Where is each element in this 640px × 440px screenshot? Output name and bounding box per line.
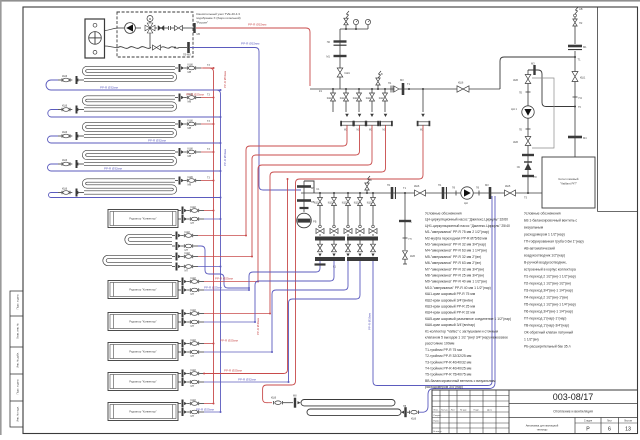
valve KSh6 floor serp <box>271 397 293 405</box>
svg-text:КШ6-кран шаровый 3/4"(вн/нар): КШ6-кран шаровый 3/4"(вн/нар) <box>425 323 475 327</box>
radiator coil S3 <box>84 124 175 136</box>
svg-text:PP-R Ø25мм: PP-R Ø25мм <box>196 408 214 412</box>
wire blue trunk riser <box>205 90 221 412</box>
collector1 branch valves <box>327 88 424 112</box>
radiator coil S4 <box>84 152 175 164</box>
svg-text:М8: М8 <box>188 100 192 104</box>
svg-text:М9: М9 <box>311 186 315 190</box>
wire blue return C4 <box>204 351 273 353</box>
valve KSh5 upper <box>513 75 531 84</box>
svg-text:Инв. № дубл.: Инв. № дубл. <box>17 352 20 368</box>
svg-text:М4: М4 <box>583 136 587 140</box>
svg-text:М7: М7 <box>191 414 195 418</box>
svg-text:П1: П1 <box>387 183 391 187</box>
svg-text:М1-"американка" PP-R 75 мм 2 1: М1-"американка" PP-R 75 мм 2 1/2"(нар) <box>425 230 489 234</box>
svg-text:КШ6: КШ6 <box>62 75 68 78</box>
tee T1 row1 <box>407 82 411 90</box>
gauges and safety valve assembly <box>340 11 371 89</box>
svg-text:М1: М1 <box>583 45 587 49</box>
wire red supply S5 <box>201 177 215 182</box>
svg-text:П2: П2 <box>327 40 331 44</box>
manifold line row2 <box>301 192 542 194</box>
svg-text:Подп.: Подп. <box>474 410 480 412</box>
svg-text:КШ2: КШ2 <box>191 338 197 342</box>
svg-text:П7-переход 1"(нар)-1"(нар): П7-переход 1"(нар)-1"(нар) <box>524 317 566 321</box>
svg-text:П1: П1 <box>438 183 442 187</box>
wire red supply S4 <box>201 148 215 153</box>
flange floor serp right <box>401 405 407 417</box>
valve KSh6 row1 <box>457 81 469 93</box>
svg-text:М3-"американка" PP-R 32 мм 3/4: М3-"американка" PP-R 32 мм 3/4"(нар) <box>425 243 486 247</box>
svg-text:М7: М7 <box>191 292 195 296</box>
reducer P5 lower <box>519 129 531 132</box>
svg-text:КШ2: КШ2 <box>327 97 333 100</box>
wire blue return C3 <box>204 321 256 323</box>
svg-text:П6-переход 3/4"(вн)-1 1/4"(нар: П6-переход 3/4"(вн)-1 1/4"(нар) <box>524 310 573 314</box>
svg-text:Автономка для жилищной: Автономка для жилищной <box>526 424 559 428</box>
branch C6 return fittings <box>178 408 204 418</box>
flange M3 row1 <box>400 78 404 95</box>
wire red supply C2 <box>204 281 259 283</box>
svg-text:КШ6: КШ6 <box>62 188 68 191</box>
svg-text:Т4-тройник PP-R 40/40/25 мм: Т4-тройник PP-R 40/40/25 мм <box>425 367 472 371</box>
svg-text:П3-переход 3/4"(вн)-1 1/4"(нар: П3-переход 3/4"(вн)-1 1/4"(нар) <box>524 289 573 293</box>
svg-text:М3: М3 <box>531 62 535 66</box>
wire panel to mixing unit <box>105 28 119 48</box>
svg-text:М7-"американка" PP-R 32 мм 3/4: М7-"американка" PP-R 32 мм 3/4"(вн) <box>425 267 484 271</box>
tee T1 row2 <box>403 186 407 190</box>
branch C6 supply fittings <box>178 398 204 408</box>
svg-text:PP-R Ø32мм: PP-R Ø32мм <box>148 139 166 143</box>
flange M1 riser <box>568 45 587 50</box>
row2 left flange stack <box>297 181 320 205</box>
wire blue return main <box>190 42 301 191</box>
branch C4 return fittings <box>178 348 204 358</box>
svg-text:Подп. и дата: Подп. и дата <box>17 379 20 394</box>
svg-text:КШ6: КШ6 <box>411 418 417 421</box>
radiator coil S5 <box>84 181 175 193</box>
radiator C5 <box>108 373 178 391</box>
valve floor serp right <box>407 410 419 420</box>
svg-text:М8: М8 <box>188 126 192 130</box>
flange P8 <box>522 175 537 179</box>
svg-text:М8-"американка" PP-R 25 мм 3/4: М8-"американка" PP-R 25 мм 3/4"(вн) <box>425 274 484 278</box>
branch S3 supply fittings <box>175 118 201 130</box>
svg-text:"Россия": "Россия" <box>196 20 208 24</box>
svg-text:Подп. и дата: Подп. и дата <box>17 294 20 309</box>
svg-text:PP-R Ø25мм: PP-R Ø25мм <box>220 339 238 343</box>
svg-text:М10-"американка" PP-R 40 мм 1: М10-"американка" PP-R 40 мм 1 1/2"(нар) <box>425 286 491 290</box>
manifold line row1 <box>310 88 500 90</box>
branch S1 return fittings <box>58 75 84 84</box>
branch C1 return fittings <box>178 215 204 225</box>
radiator C3 <box>108 313 178 331</box>
mixing unit dashed enclosure <box>117 12 193 57</box>
svg-text:М5-"американка" PP-R 32 мм 2"(: М5-"американка" PP-R 32 мм 2"(вн) <box>425 255 481 259</box>
svg-text:Взам. инв. №: Взам. инв. № <box>17 323 20 339</box>
wire blue return S4 <box>48 164 222 172</box>
flange P2 row1 riser <box>327 40 347 46</box>
flange M1 row1 riser <box>326 55 346 59</box>
svg-text:PP-R Ø32мм: PP-R Ø32мм <box>368 313 372 330</box>
expansion tank RB <box>297 205 317 228</box>
svg-text:Стадия: Стадия <box>584 420 593 423</box>
wire red fan collector1 <box>204 125 423 403</box>
wire red supply SS <box>198 235 247 237</box>
branch C1 supply fittings <box>178 205 204 215</box>
legend left column <box>425 212 511 390</box>
label red C5 <box>224 369 242 373</box>
collector2 bar lower <box>315 257 378 269</box>
svg-text:КШ6: КШ6 <box>414 184 420 188</box>
flange bar pump column <box>522 154 534 156</box>
svg-text:Радиатор "Конвектор": Радиатор "Конвектор" <box>129 410 156 414</box>
radiator S6 <box>105 257 173 264</box>
pump bypass gray loop <box>532 78 554 148</box>
label red C4 <box>220 339 238 343</box>
svg-text:Пров.: Пров. <box>434 421 440 423</box>
branch S6 return fittings <box>172 263 198 273</box>
svg-text:Котел газовый: Котел газовый <box>559 177 579 181</box>
valve KSh6 row2 <box>414 184 426 196</box>
label blue S1 <box>100 86 118 90</box>
collector2 balancing valves BV <box>316 225 377 236</box>
branch S4 return fittings <box>58 159 84 168</box>
svg-text:КШ6: КШ6 <box>458 81 464 85</box>
valve KSh1 riser <box>572 72 586 82</box>
svg-text:КШ5: КШ5 <box>410 255 416 258</box>
svg-text:расходомером 1 1/2"(нар): расходомером 1 1/2"(нар) <box>524 233 565 237</box>
svg-text:П2: П2 <box>579 21 583 25</box>
top-right spare column <box>598 7 638 212</box>
wire blue floor serp return <box>419 196 495 412</box>
branch C5 supply fittings <box>178 368 204 378</box>
pump column line <box>527 70 529 193</box>
svg-text:М3: М3 <box>485 183 489 187</box>
svg-text:Радиатор "Конвектор": Радиатор "Конвектор" <box>129 288 156 292</box>
radiator C4 <box>108 343 178 361</box>
svg-text:КШ6: КШ6 <box>188 146 194 150</box>
pump CN2 mixing <box>118 23 141 34</box>
svg-text:М1: М1 <box>326 55 330 59</box>
svg-text:КШ6: КШ6 <box>188 62 194 66</box>
svg-text:КШ6: КШ6 <box>188 118 194 122</box>
wire blue return C5 <box>204 381 290 383</box>
svg-text:PP-R Ø32мм: PP-R Ø32мм <box>104 167 122 171</box>
radiator coil S1 <box>84 68 175 80</box>
svg-text:П1: П1 <box>388 81 392 85</box>
label blue S3 <box>148 139 166 143</box>
svg-text:PP-R Ø32мм: PP-R Ø32мм <box>238 378 256 382</box>
safety valve row1 mid <box>376 71 383 90</box>
wire blue return S2 <box>48 110 222 119</box>
union M8 flange lower <box>183 42 191 57</box>
wire blue return S5 <box>49 193 222 199</box>
branch S4 supply fittings <box>175 146 201 158</box>
svg-text:М8: М8 <box>293 395 297 398</box>
branch S3 return fittings <box>58 131 84 140</box>
mixing unit label <box>196 12 241 24</box>
svg-text:П4: П4 <box>579 96 583 100</box>
svg-text:П2-переход 1 1/2"(вн)-1/2"(вн): П2-переход 1 1/2"(вн)-1/2"(вн) <box>524 282 571 286</box>
label red trunk <box>223 71 227 88</box>
svg-text:PP-R Ø40мм: PP-R Ø40мм <box>256 318 260 335</box>
svg-text:РБ: РБ <box>313 220 317 224</box>
svg-text:003-08/17: 003-08/17 <box>553 392 594 402</box>
union M6 flange <box>193 23 200 36</box>
floor serpentine coil <box>301 400 401 416</box>
wire blue fan collector2 <box>249 261 360 382</box>
label red riser rotated <box>256 318 260 335</box>
svg-text:М7: М7 <box>191 324 195 328</box>
radiator coil S2 <box>84 98 175 110</box>
branch S2 supply fittings <box>175 92 201 104</box>
svg-text:М6-"американка" PP-R 63 мм 2"(: М6-"американка" PP-R 63 мм 2"(вн) <box>425 261 481 265</box>
wire red trunk riser <box>203 68 214 403</box>
pump CN1 <box>511 106 534 118</box>
flange P1 row1 <box>388 81 399 93</box>
flange M8 floor serp <box>293 395 301 408</box>
check valve OK <box>517 161 532 170</box>
svg-text:М2-муфта переходная PP-R Ø75/6: М2-муфта переходная PP-R Ø75/63 мм <box>425 236 488 240</box>
wire blue return S1 <box>46 80 222 91</box>
svg-text:Радиатор "Конвектор": Радиатор "Конвектор" <box>129 380 156 384</box>
check valve mixing <box>155 26 171 31</box>
svg-text:PP-R Ø63мм: PP-R Ø63мм <box>223 149 227 166</box>
branch S5 return fittings <box>58 188 84 197</box>
svg-text:Лист: Лист <box>607 420 613 423</box>
valve KSh5 row2 <box>505 184 516 196</box>
svg-text:КШ2: КШ2 <box>191 368 197 372</box>
air vent B on row2 <box>365 176 372 194</box>
radiator C2 <box>108 281 178 299</box>
reducer P6 row2 <box>452 187 456 196</box>
label red C2 <box>215 277 233 281</box>
svg-text:Изм.: Изм. <box>434 410 439 412</box>
wire red supply S3 <box>201 120 215 125</box>
pump CN main <box>461 187 473 205</box>
svg-text:М3: М3 <box>400 78 404 82</box>
svg-text:КШ2: КШ2 <box>353 97 359 100</box>
legend right column <box>524 212 584 349</box>
svg-text:PP-R Ø32мм: PP-R Ø32мм <box>100 86 118 90</box>
wire red supply S2 <box>201 94 215 99</box>
branch C2 return fittings <box>178 286 204 296</box>
svg-text:Т5-тройник PP-R 75/40/75 мм: Т5-тройник PP-R 75/40/75 мм <box>425 373 472 377</box>
svg-text:ВВ-балансировочный вентиль с в: ВВ-балансировочный вентиль с визуальным <box>425 379 496 383</box>
reducer P2 riser <box>573 96 583 100</box>
svg-text:Отопление и вентиляция: Отопление и вентиляция <box>553 410 593 414</box>
svg-text:КШ5: КШ5 <box>513 141 519 144</box>
flange P1b row2 <box>438 183 447 199</box>
flange M3 tie <box>531 62 536 76</box>
svg-text:РБ-расширительный бак 35 л: РБ-расширительный бак 35 л <box>524 345 571 349</box>
svg-text:6: 6 <box>608 427 611 433</box>
svg-text:Р: Р <box>586 427 590 433</box>
wire blue return SS <box>198 246 250 289</box>
tee T5 row2 <box>524 192 529 200</box>
svg-text:П9 М8: П9 М8 <box>183 53 191 57</box>
branch S2 return fittings <box>58 105 84 114</box>
wire blue return C1 <box>204 218 222 220</box>
svg-text:К1-коллектор "Valtec" с заглуш: К1-коллектор "Valtec" с заглушками и сто… <box>425 329 499 333</box>
valve KSh5 lower <box>513 137 531 146</box>
branch C3 return fittings <box>178 318 204 328</box>
svg-text:Т2-тройник PP-R 32/32/25 мм: Т2-тройник PP-R 32/32/25 мм <box>425 354 472 358</box>
svg-text:Радиатор "Конвектор": Радиатор "Конвектор" <box>129 320 156 324</box>
svg-text:PP-R Ø25мм: PP-R Ø25мм <box>224 369 242 373</box>
wire row1 to boiler riser <box>500 57 575 89</box>
reducer P5 upper <box>519 92 531 95</box>
wire red supply S6 <box>198 256 253 258</box>
svg-text:встроенный в корпус коллектора: встроенный в корпус коллектора <box>524 268 576 272</box>
label blue riser rotated <box>368 313 372 330</box>
svg-text:КШ1: КШ1 <box>580 76 586 80</box>
svg-text:КШ3-кран шаровый PP-R 25 мм: КШ3-кран шаровый PP-R 25 мм <box>425 305 476 309</box>
branch C2 supply fittings <box>178 276 204 286</box>
svg-text:КШ2: КШ2 <box>191 205 197 209</box>
svg-text:В-ручной воздухоотводчик,: В-ручной воздухоотводчик, <box>524 261 567 265</box>
svg-text:PP-R Ø32мм: PP-R Ø32мм <box>241 42 259 46</box>
label red S2 <box>186 93 204 97</box>
svg-text:КШ4-кран шаровый PP-R 32 мм: КШ4-кран шаровый PP-R 32 мм <box>425 311 476 315</box>
svg-text:Кол.уч: Кол.уч <box>441 410 448 412</box>
svg-text:КШ2: КШ2 <box>328 202 334 205</box>
svg-text:Т3-тройник PP-R 40/40/32 мм: Т3-тройник PP-R 40/40/32 мм <box>425 360 472 364</box>
valve KSh mixing top <box>171 26 193 31</box>
svg-text:М8: М8 <box>188 154 192 158</box>
air vent AV top right <box>574 7 583 17</box>
svg-text:Радиатор "Конвектор": Радиатор "Конвектор" <box>129 350 156 354</box>
svg-text:КШ6: КШ6 <box>271 397 277 400</box>
three-way valve with motor M <box>145 16 155 48</box>
branch SS supply fittings <box>172 230 198 240</box>
svg-text:ОК-обратный клапан латунный: ОК-обратный клапан латунный <box>524 331 573 335</box>
svg-text:визуальным: визуальным <box>524 226 544 230</box>
radiator C6 <box>108 403 178 421</box>
svg-text:ГП-гофрированная труба 0.6м 1": ГП-гофрированная труба 0.6м 1"(нар) <box>524 240 584 244</box>
label blue C5 <box>238 378 256 382</box>
svg-text:PP-R Ø25мм: PP-R Ø25мм <box>215 277 233 281</box>
svg-text:Разраб.: Разраб. <box>434 415 442 417</box>
collector2 bar upper <box>315 237 378 241</box>
title block <box>432 390 638 434</box>
svg-text:Радиатор "Конвектор": Радиатор "Конвектор" <box>129 217 156 221</box>
svg-text:КШ5: КШ5 <box>505 184 511 188</box>
svg-text:М7: М7 <box>191 354 195 358</box>
boiler gas unit <box>542 157 595 208</box>
wire blue return S3 <box>48 136 222 144</box>
svg-text:Листов: Листов <box>624 420 632 423</box>
svg-text:Лист: Лист <box>451 410 456 412</box>
svg-text:КШ5: КШ5 <box>513 79 519 82</box>
svg-text:1 1/2"(вн): 1 1/2"(вн) <box>524 338 539 342</box>
wire red supply main <box>196 23 310 87</box>
branch S1 supply fittings <box>175 62 201 74</box>
valve riser top <box>573 17 583 44</box>
svg-text:М8: М8 <box>188 70 192 74</box>
svg-text:КШ2: КШ2 <box>379 97 385 100</box>
svg-text:PP-R Ø25мм: PP-R Ø25мм <box>204 286 222 290</box>
svg-text:КШ1-кран шаровый PP-R 75 мм: КШ1-кран шаровый PP-R 75 мм <box>425 292 476 296</box>
branch S6 supply fittings <box>172 251 198 261</box>
valve KSh1 row1 riser <box>337 68 350 77</box>
collector2 lower valves <box>318 241 376 257</box>
flange M3 row2 <box>485 183 491 199</box>
svg-text:ЦН-циркуляционный насос "Джиле: ЦН-циркуляционный насос "Джилекс.Циркуль… <box>425 218 508 222</box>
svg-text:ЦН: ЦН <box>464 201 468 205</box>
svg-text:ГП: ГП <box>409 238 412 241</box>
svg-text:КШ2: КШ2 <box>191 308 197 312</box>
svg-text:Дата: Дата <box>487 410 493 412</box>
svg-text:АВ-автоматический: АВ-автоматический <box>524 247 555 251</box>
label blue S4 <box>104 167 122 171</box>
svg-text:П4-переход 2 1/2"(вн)-1"(вн): П4-переход 2 1/2"(вн)-1"(вн) <box>524 296 568 300</box>
branch C4 supply fittings <box>178 338 204 348</box>
svg-text:Н.контр.: Н.контр. <box>434 431 443 433</box>
svg-text:КШ5-кран шаровый разъемное сое: КШ5-кран шаровый разъемное соединение 1 … <box>425 317 511 321</box>
wire red supply C6 <box>204 403 215 405</box>
svg-text:М7: М7 <box>191 221 195 225</box>
svg-text:М4-"американка" PP-R 63 мм 1 1: М4-"американка" PP-R 63 мм 1 1/4"(вн) <box>425 249 487 253</box>
svg-text:КШ2: КШ2 <box>340 97 346 100</box>
svg-text:П8-переход 1"(нар)-3/4"(нар): П8-переход 1"(нар)-3/4"(нар) <box>524 324 569 328</box>
row2 drain branch <box>399 192 416 264</box>
label blue trunk <box>223 149 227 166</box>
flex hose lower <box>118 47 151 49</box>
svg-text:воздухоотводчик 1/2"(нар): воздухоотводчик 1/2"(нар) <box>524 254 565 258</box>
svg-text:КШ2: КШ2 <box>366 97 372 100</box>
collector2 branch valves <box>314 192 376 228</box>
reducer P6b row2 <box>476 187 480 196</box>
svg-text:КШ6: КШ6 <box>188 175 194 179</box>
svg-text:Условные обозначения: Условные обозначения <box>524 212 561 216</box>
svg-text:PP-R Ø63мм: PP-R Ø63мм <box>223 71 227 88</box>
svg-text:"Vaillant PiT": "Vaillant PiT" <box>560 182 577 186</box>
branch SS return fittings <box>172 242 198 252</box>
branch C5 return fittings <box>178 378 204 388</box>
wire blue return C6 <box>204 411 222 413</box>
svg-text:АВ: АВ <box>579 7 583 11</box>
svg-text:КШ2: КШ2 <box>367 202 373 205</box>
svg-text:расходомером 3/4"(нар): расходомером 3/4"(нар) <box>425 385 463 389</box>
svg-text:КШ6: КШ6 <box>62 105 68 108</box>
wire red supply C4 <box>204 343 215 345</box>
left stamp column <box>10 291 23 427</box>
wire blue collector2 to boiler return <box>373 196 492 386</box>
collector1 union bars M3 <box>319 89 430 132</box>
branch C3 supply fittings <box>178 308 204 318</box>
svg-text:теплицы: теплицы <box>537 429 548 432</box>
pump loop tie line <box>528 70 581 109</box>
svg-text:Условные обозначения: Условные обозначения <box>425 212 462 216</box>
svg-text:ЦН 1: ЦН 1 <box>511 107 518 111</box>
svg-text:КШ2: КШ2 <box>191 276 197 280</box>
valve lower mixing <box>153 45 161 50</box>
svg-text:П1-переход 2 1/2"(вн)-1 1/2"(н: П1-переход 2 1/2"(вн)-1 1/2"(нар) <box>524 275 576 279</box>
svg-text:КШ2: КШ2 <box>354 202 360 205</box>
branch S5 supply fittings <box>175 175 201 187</box>
svg-text:КШ2: КШ2 <box>342 202 348 205</box>
wire red supply C3 <box>204 313 271 315</box>
wire red supply C1 <box>204 210 215 212</box>
svg-text:М6: М6 <box>197 32 201 36</box>
svg-text:PP-R Ø32мм: PP-R Ø32мм <box>248 23 266 27</box>
svg-text:КШ2: КШ2 <box>191 398 197 402</box>
svg-text:БВ 1-балансировочный вентиль с: БВ 1-балансировочный вентиль с <box>524 219 577 223</box>
wire blue return S6 <box>198 266 222 268</box>
svg-text:К1: К1 <box>319 89 323 93</box>
